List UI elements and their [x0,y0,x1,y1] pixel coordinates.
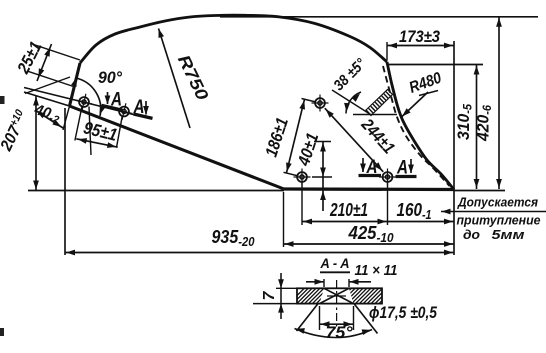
dimension 7 text [261,290,278,300]
dimension 935-20 line [65,250,454,256]
bottom reference line extension left [28,190,284,192]
dimension 25±1 extension line upper [33,44,80,60]
hole H3 upper middle [312,95,329,112]
dimension 95±1 extension ticks [75,107,122,148]
dimension 425-10 text [348,222,395,245]
plate bottom edge extension [253,303,297,305]
note text line 2 [457,213,541,228]
dimension 25±1 extension line lower [28,71,75,87]
svg-text:11 × 11: 11 × 11 [355,262,398,279]
svg-text:5мм: 5мм [492,227,525,242]
svg-text:до: до [463,227,480,242]
dimension 244±1 text [357,114,398,157]
dimension 40-2 line [35,110,63,128]
chamfer horizontal reference line [353,114,397,116]
outline bottom edge [284,187,454,191]
dimension 160-1 text [397,199,432,222]
diameter 17.5 dimension line [320,321,354,327]
dimension 210±1 line [302,219,388,225]
top apex extension line [220,16,538,18]
hole H5 bottom right [379,169,396,186]
section mark tick right of H2 [134,114,153,118]
section mark tick left of H5 [359,174,382,177]
angle 75° arc [295,328,373,337]
dimension 207+10 line [33,96,39,190]
scan speck left edge [0,96,5,104]
dimension 25±1 text [13,38,45,77]
dimension 7 line and arrows [278,273,284,319]
hole centre line through H1 H2 extended [24,88,150,119]
section mark arrow left of H2 [105,92,111,105]
dimension 173±3 line [387,43,454,49]
svg-text:75°: 75° [326,323,353,342]
diameter 17.5 extension lines [320,306,354,330]
countersink cone line left [297,304,319,331]
countersink cross line 1 [324,288,354,303]
dimension 173±3 extension left [386,42,388,60]
angle 90° arc [71,77,105,116]
radius R750 leader [159,29,191,129]
section letter A left of H5 [366,157,378,178]
dimension 186±1 text [262,115,292,159]
blade edge extension up-left [24,92,70,106]
diameter 17.5 text [369,303,437,322]
dimension 425-10 line [284,241,455,247]
countersink cross line 2 [320,288,350,303]
section mark arrow right of H5 [408,159,414,174]
left edge extension down-left [63,106,70,130]
hatched chamfer bar [366,90,393,116]
svg-text:90°: 90° [98,68,122,87]
svg-text:A: A [396,158,408,179]
radius R480 text [407,70,444,97]
dimension 210±1 extension lines [302,183,388,225]
dimension 40-2 text [31,101,62,127]
scan speck bottom left [0,328,4,336]
hole horizontal centre tick [327,295,346,297]
plate top edge extension [276,287,297,289]
section plate hatching right [336,288,394,303]
dimension 420-6 text [475,104,495,142]
hole H1 left [76,94,93,111]
dimension 11x11 text [355,262,398,279]
outline blade cutting edge [70,106,285,189]
dimension 207+10 text [0,107,32,154]
outline right edge curve [387,62,454,190]
angle 90° text [98,68,122,87]
svg-text:7: 7 [261,290,278,300]
outline left edge [70,63,81,106]
dimension 95±1 line [76,138,117,148]
dimension 25±1 line with arrows [37,44,52,81]
dimension 40±1 text [294,131,323,169]
dimension 186±1 line [286,99,305,172]
hole H2 left-second [116,103,133,120]
radius R480 leader [402,92,428,117]
section plate hatching left [289,288,343,303]
radius R750 text [174,52,212,104]
section mark arrow right of H2 [143,101,149,115]
dimension 40±1 ticks [312,142,332,178]
svg-text:A: A [133,97,145,118]
dimension 160-1 line [388,219,455,225]
dimension 210±1 text [329,199,368,220]
countersink cone line right [354,304,378,334]
section mark tick right of H5 [396,175,417,178]
hole vertical centre line [336,280,338,327]
hole H4 lower middle [294,169,311,186]
dashed blunting limit curve R480 [383,66,450,186]
section title A-A [320,255,350,272]
note text line 3 [463,227,525,242]
svg-text:A - A: A - A [320,255,350,271]
note text line 1 [457,195,538,210]
dimension 173±3 text [399,27,440,46]
angle 75° text [326,323,353,342]
dimension 420-6 line [496,17,502,189]
svg-text:Допускается: Допускается [457,195,538,210]
hole H1 axis line [89,107,91,156]
svg-text:210±1: 210±1 [329,199,368,220]
vertical reference line at right corner [453,41,455,255]
section mark arrow left of H5 [360,158,366,173]
dimension 935-20 text [212,226,256,249]
left extension line from tip [64,108,66,255]
dimension 11x11 arrows [306,279,371,285]
chamfer slanted reference line [332,90,369,114]
note line with arrow [441,209,546,215]
dimension 11x11 extension lines [324,279,349,287]
extension line from right corner [388,64,483,66]
angle 38±5° arc [344,92,361,114]
section letter A right of H2 [133,97,145,118]
dimension 244±1 line [325,108,383,172]
svg-text:A: A [110,90,122,111]
svg-text:ϕ17,5 ±0,5: ϕ17,5 ±0,5 [369,303,437,322]
angle 38±5° text [330,55,370,95]
dimension 310-5 text [455,103,475,140]
svg-text:173±3: 173±3 [399,27,440,46]
outline top curve R750 [80,15,387,63]
svg-text:притупление: притупление [457,213,541,228]
dimension 25±1 extension line third [25,77,70,94]
dimension 425-10 extension line [283,192,285,247]
dimension 186±1 extension ticks [284,99,317,177]
section plate bar outline [297,288,382,303]
section letter A left of H2 [110,90,122,111]
dimension 95±1 text [82,117,120,145]
section mark tick left of H2 [102,105,124,110]
dimension 40±1 line [320,142,326,212]
bottom reference line extension right [454,190,505,192]
section letter A right of H5 [396,158,408,179]
dimension 310-5 line [474,65,480,190]
radius R480 underline [419,91,438,96]
